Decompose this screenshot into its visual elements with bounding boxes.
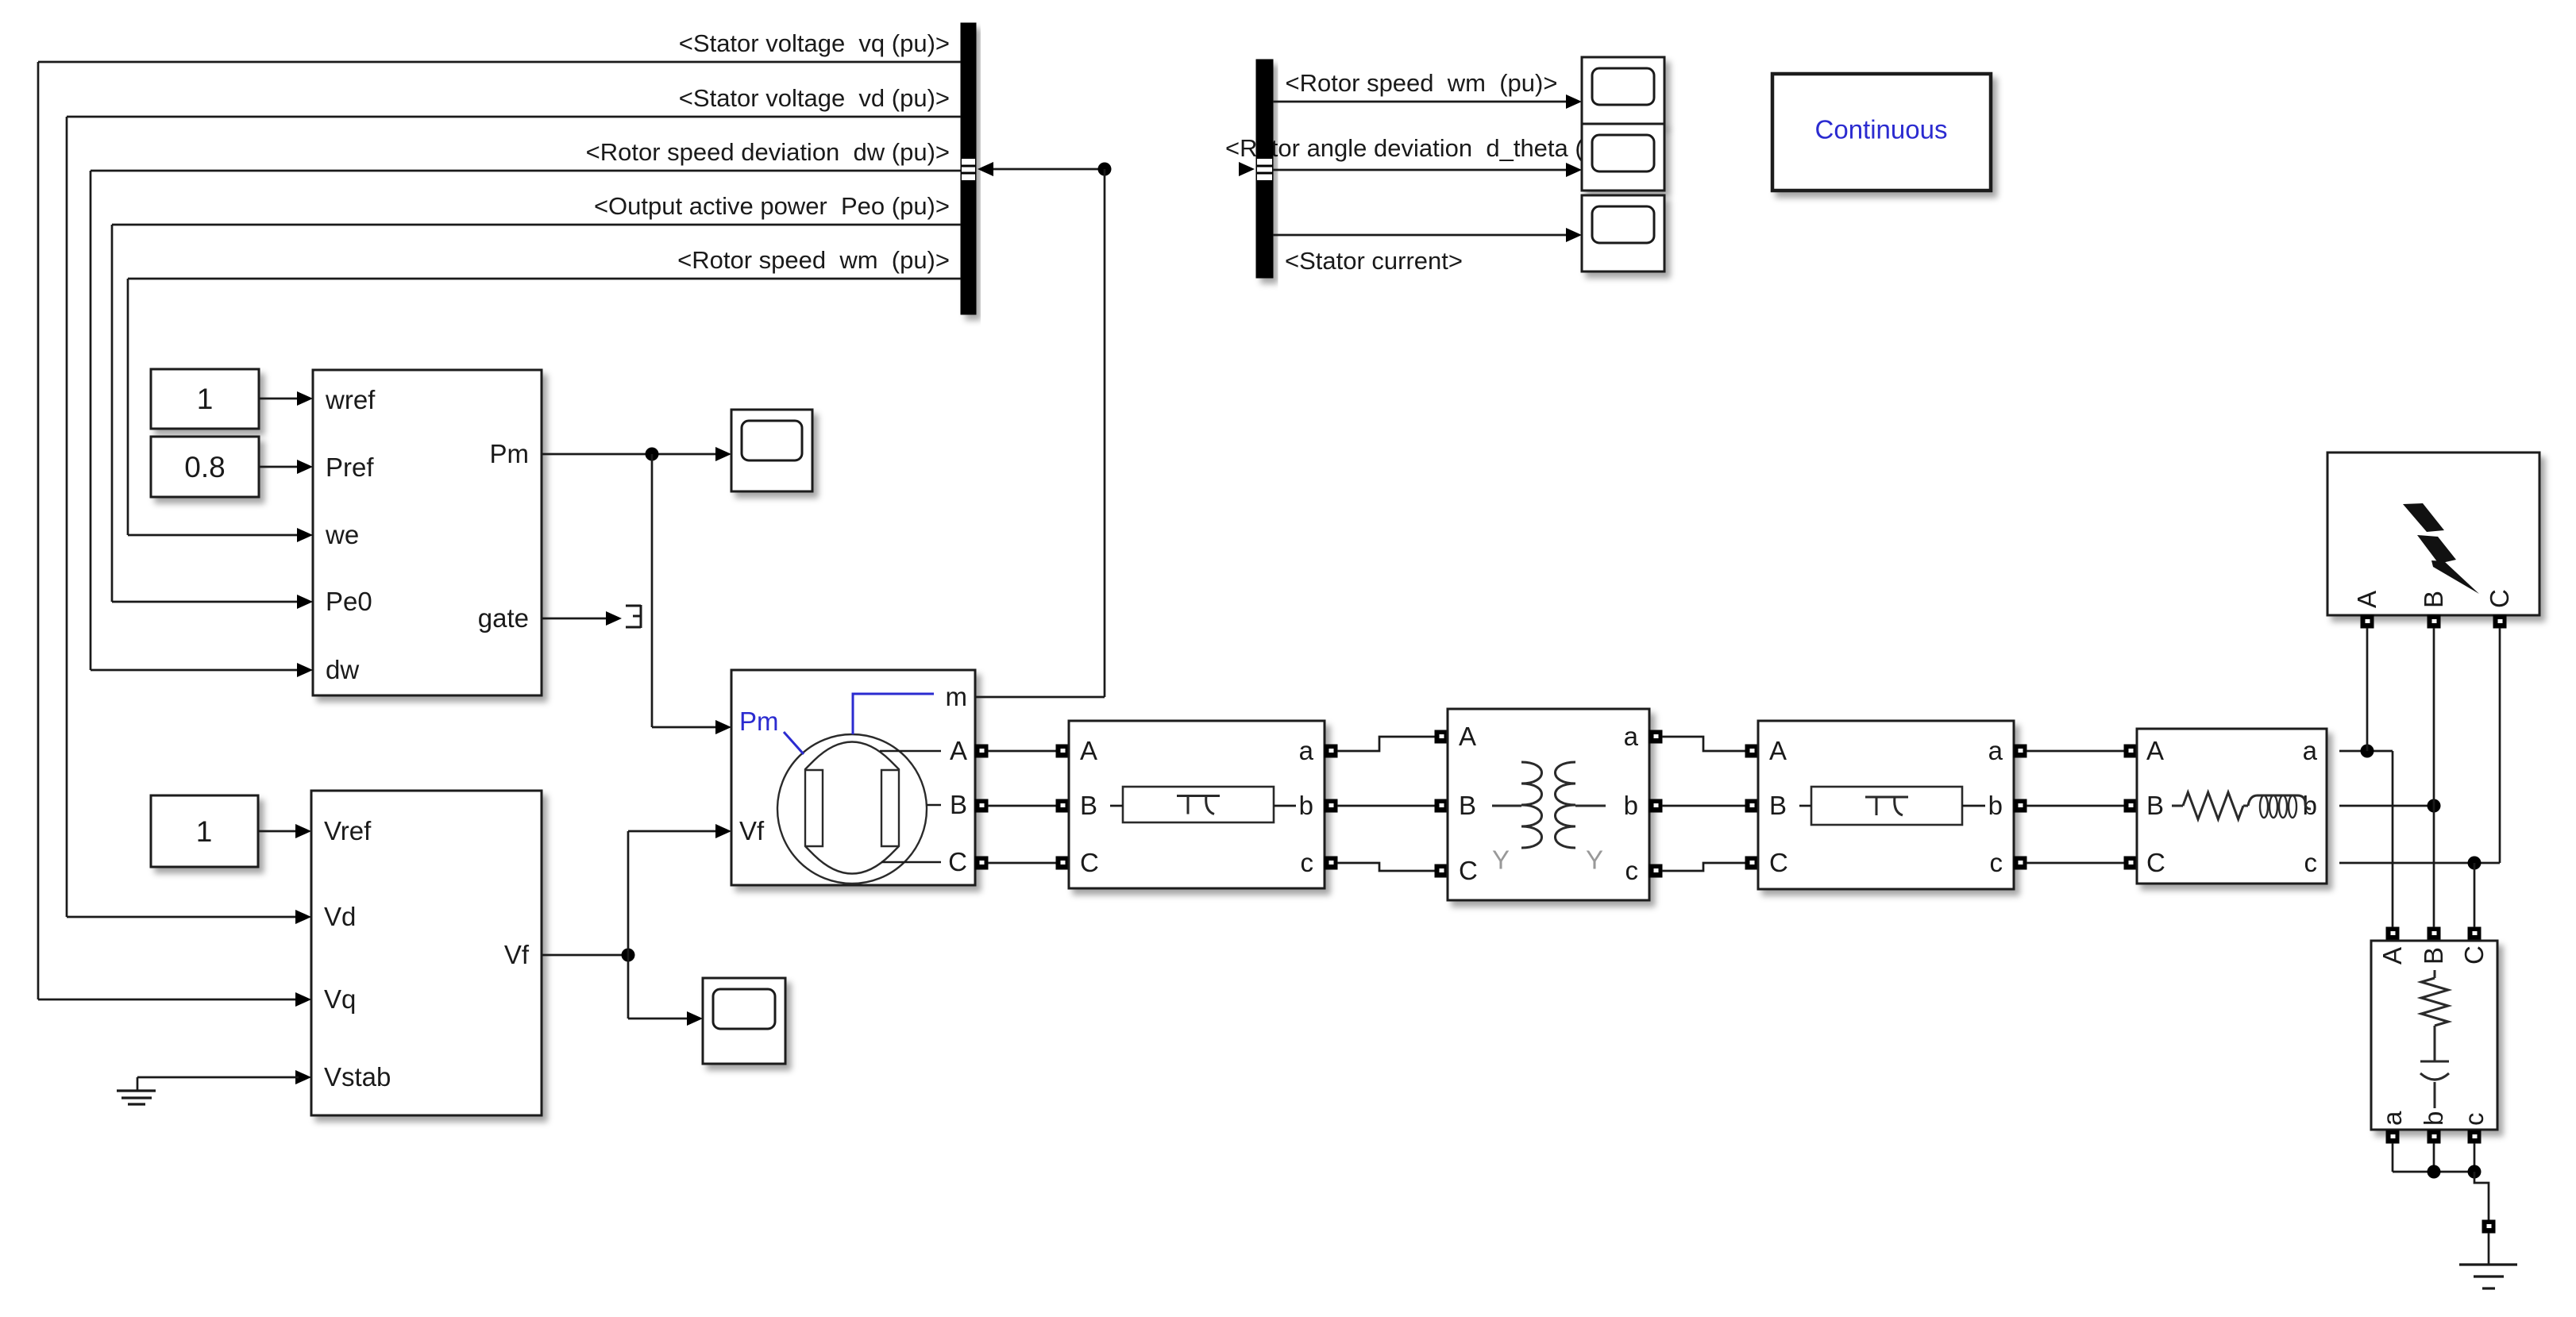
svg-text:B: B: [1459, 791, 1476, 820]
svg-text:c: c: [2459, 1113, 2489, 1126]
svg-text:Vd: Vd: [324, 902, 356, 931]
svg-text:a: a: [2303, 736, 2318, 765]
svg-text:<Rotor speed wm (pu)>: <Rotor speed wm (pu)>: [677, 246, 950, 274]
svg-text:<Output active power Peo (pu: <Output active power Peo (pu)>: [594, 192, 950, 220]
svg-text:b: b: [1624, 791, 1638, 820]
svg-text:A: A: [1769, 736, 1787, 765]
svg-text:m: m: [946, 682, 968, 711]
svg-text:a: a: [2377, 1111, 2407, 1126]
svg-text:<Stator voltage vq (pu)>: <Stator voltage vq (pu)>: [679, 29, 950, 57]
svg-text:B: B: [950, 790, 967, 819]
svg-text:Vf: Vf: [739, 816, 765, 845]
svg-text:b: b: [1988, 791, 2003, 820]
svg-text:Pref: Pref: [326, 452, 374, 482]
svg-text:Y: Y: [1586, 845, 1603, 875]
svg-text:B: B: [2146, 791, 2164, 820]
svg-text:B: B: [1080, 791, 1097, 820]
svg-text:B: B: [1769, 791, 1787, 820]
svg-text:C: C: [2459, 945, 2489, 965]
svg-text:0.8: 0.8: [184, 451, 225, 483]
svg-text:A: A: [1459, 722, 1476, 751]
svg-text:c: c: [1990, 848, 2003, 877]
svg-text:A: A: [2352, 591, 2381, 608]
svg-text:C: C: [1080, 848, 1099, 877]
svg-text:we: we: [325, 520, 359, 549]
svg-text:C: C: [1769, 848, 1788, 877]
svg-text:Vq: Vq: [324, 984, 356, 1014]
svg-text:dw: dw: [326, 655, 359, 684]
svg-text:B: B: [2419, 947, 2448, 965]
svg-text:b: b: [2419, 1111, 2448, 1126]
svg-text:Y: Y: [1492, 845, 1510, 875]
svg-text:Pm: Pm: [490, 439, 530, 468]
svg-text:wref: wref: [325, 385, 376, 414]
svg-text:C: C: [2485, 589, 2514, 608]
svg-text:<Stator current>: <Stator current>: [1285, 247, 1463, 275]
svg-text:c: c: [1301, 848, 1314, 877]
svg-text:Vref: Vref: [324, 816, 372, 845]
svg-text:B: B: [2419, 591, 2448, 608]
svg-text:C: C: [948, 847, 967, 876]
svg-text:Continuous: Continuous: [1815, 115, 1948, 144]
svg-text:A: A: [950, 736, 967, 765]
svg-text:a: a: [1299, 736, 1314, 765]
svg-text:<Rotor speed wm (pu)>: <Rotor speed wm (pu)>: [1286, 69, 1558, 97]
svg-text:gate: gate: [478, 603, 529, 633]
svg-text:1: 1: [197, 383, 214, 415]
svg-text:A: A: [2146, 736, 2164, 765]
svg-text:A: A: [2377, 947, 2407, 965]
svg-text:C: C: [1459, 856, 1478, 885]
svg-text:Vf: Vf: [504, 940, 530, 969]
svg-text:c: c: [1625, 856, 1639, 885]
svg-text:a: a: [1988, 736, 2003, 765]
svg-text:C: C: [2146, 848, 2165, 877]
svg-text:A: A: [1080, 736, 1097, 765]
svg-text:b: b: [1299, 791, 1313, 820]
svg-text:Pm: Pm: [739, 707, 779, 736]
svg-text:Vstab: Vstab: [324, 1062, 391, 1092]
svg-text:<Stator voltage vd (pu)>: <Stator voltage vd (pu)>: [679, 84, 950, 112]
svg-text:<Rotor speed deviation dw (pu: <Rotor speed deviation dw (pu)>: [586, 138, 950, 166]
svg-text:c: c: [2304, 848, 2318, 877]
svg-text:a: a: [1624, 722, 1639, 751]
svg-text:1: 1: [196, 815, 213, 848]
svg-text:<Rotor angle deviation d_thet: <Rotor angle deviation d_theta (rad)>: [1225, 134, 1641, 162]
svg-text:Pe0: Pe0: [326, 587, 372, 616]
